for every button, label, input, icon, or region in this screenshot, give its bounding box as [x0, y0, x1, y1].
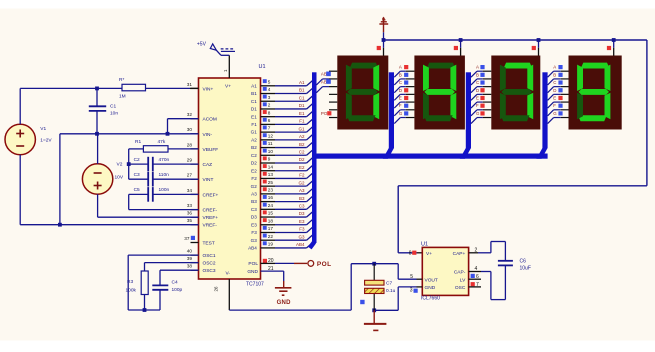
svg-text:A3: A3 — [299, 188, 305, 193]
svg-text:3: 3 — [268, 95, 271, 100]
svg-text:LV: LV — [460, 277, 466, 283]
svg-text:E3: E3 — [299, 219, 305, 224]
svg-text:C: C — [553, 80, 556, 85]
svg-text:2: 2 — [268, 103, 271, 108]
svg-text:31: 31 — [187, 82, 193, 87]
svg-text:7: 7 — [268, 126, 271, 131]
svg-text:B2: B2 — [251, 145, 257, 150]
svg-text:CAZ: CAZ — [203, 162, 213, 168]
svg-text:19: 19 — [268, 242, 274, 247]
svg-text:V+: V+ — [225, 84, 231, 90]
svg-text:0.1u: 0.1u — [386, 288, 396, 294]
svg-text:VIN+: VIN+ — [203, 86, 214, 92]
svg-text:A1: A1 — [251, 83, 257, 88]
svg-text:25: 25 — [268, 180, 274, 185]
svg-text:TC7107: TC7107 — [246, 282, 264, 288]
svg-text:E2: E2 — [299, 165, 305, 170]
svg-text:G3: G3 — [251, 238, 258, 243]
svg-text:470n: 470n — [159, 157, 170, 163]
svg-text:C2: C2 — [299, 149, 305, 154]
svg-text:TEST: TEST — [203, 241, 215, 247]
svg-text:R1: R1 — [135, 139, 141, 145]
svg-text:3: 3 — [410, 288, 413, 294]
svg-text:GND: GND — [277, 300, 292, 306]
svg-text:AB: AB — [321, 72, 327, 77]
svg-text:G2: G2 — [251, 184, 258, 189]
svg-text:E: E — [553, 95, 556, 100]
svg-text:15: 15 — [268, 211, 274, 216]
svg-text:A1: A1 — [299, 80, 305, 85]
svg-text:C6: C6 — [520, 259, 527, 265]
svg-text:C2: C2 — [134, 157, 140, 163]
svg-text:32: 32 — [187, 112, 193, 117]
svg-text:PO: PO — [321, 111, 328, 116]
svg-text:14: 14 — [268, 164, 274, 169]
svg-text:VOUT: VOUT — [425, 277, 438, 283]
svg-text:30: 30 — [187, 127, 193, 132]
svg-text:A3: A3 — [251, 191, 257, 196]
svg-text:16: 16 — [268, 195, 274, 200]
svg-text:28: 28 — [187, 142, 193, 147]
svg-text:G2: G2 — [298, 180, 305, 185]
svg-text:18: 18 — [268, 218, 274, 223]
svg-text:AB: AB — [321, 79, 327, 84]
svg-text:OSC3: OSC3 — [203, 268, 216, 274]
svg-text:10V: 10V — [115, 175, 124, 181]
svg-text:C4: C4 — [172, 280, 178, 286]
svg-text:D1: D1 — [251, 107, 257, 112]
svg-text:8: 8 — [268, 110, 271, 115]
svg-text:C5: C5 — [134, 187, 140, 193]
svg-text:1=2V: 1=2V — [40, 138, 52, 144]
svg-text:A2: A2 — [251, 137, 257, 142]
svg-text:8: 8 — [409, 250, 412, 256]
svg-text:10: 10 — [268, 149, 274, 154]
svg-text:AB4: AB4 — [296, 242, 305, 247]
svg-text:OSC2: OSC2 — [203, 261, 216, 267]
svg-text:U1: U1 — [421, 242, 428, 248]
svg-text:A2: A2 — [299, 134, 305, 139]
svg-text:B2: B2 — [299, 142, 305, 147]
svg-text:22: 22 — [268, 234, 274, 239]
svg-text:F2: F2 — [299, 173, 305, 178]
svg-text:12: 12 — [268, 133, 274, 138]
svg-text:VINT: VINT — [203, 177, 214, 183]
svg-text:100n: 100n — [159, 187, 170, 193]
svg-text:B3: B3 — [251, 199, 257, 204]
svg-text:D: D — [399, 88, 402, 93]
svg-text:F: F — [476, 103, 479, 108]
svg-text:34: 34 — [187, 188, 193, 193]
svg-text:17: 17 — [268, 226, 274, 231]
svg-text:C: C — [476, 80, 479, 85]
svg-text:100p: 100p — [172, 287, 183, 293]
svg-text:F: F — [399, 103, 402, 108]
svg-text:5: 5 — [268, 79, 271, 84]
svg-text:B: B — [399, 72, 402, 77]
svg-text:AB4: AB4 — [248, 246, 257, 251]
svg-text:33: 33 — [187, 203, 193, 208]
svg-text:23: 23 — [268, 187, 274, 192]
svg-text:VREF-: VREF- — [203, 223, 218, 229]
svg-text:B3: B3 — [299, 196, 305, 201]
svg-text:10uF: 10uF — [520, 265, 531, 271]
svg-text:D: D — [476, 88, 479, 93]
svg-text:B: B — [553, 72, 556, 77]
svg-text:+5V: +5V — [197, 42, 207, 48]
svg-text:U1: U1 — [259, 64, 266, 70]
svg-text:CAP+: CAP+ — [453, 251, 466, 257]
svg-text:35: 35 — [187, 218, 193, 223]
svg-text:47k: 47k — [158, 139, 166, 145]
svg-text:B1: B1 — [251, 91, 257, 96]
svg-text:G: G — [399, 111, 403, 116]
svg-text:27: 27 — [187, 173, 193, 178]
svg-text:D1: D1 — [299, 103, 305, 108]
svg-text:GND: GND — [425, 285, 436, 291]
svg-text:9: 9 — [268, 157, 271, 162]
svg-text:C3: C3 — [299, 204, 305, 209]
svg-text:E1: E1 — [251, 114, 257, 119]
svg-text:C1: C1 — [251, 99, 257, 104]
svg-text:V1: V1 — [40, 126, 46, 132]
svg-text:G1: G1 — [251, 130, 258, 135]
svg-text:D3: D3 — [299, 211, 305, 216]
svg-text:100k: 100k — [126, 288, 137, 294]
svg-text:D3: D3 — [251, 215, 257, 220]
svg-text:ICL7660: ICL7660 — [421, 296, 440, 302]
svg-text:D: D — [553, 88, 556, 93]
svg-text:C7: C7 — [386, 280, 392, 286]
svg-text:F2: F2 — [251, 176, 257, 181]
svg-text:10n: 10n — [110, 111, 118, 117]
svg-text:C1: C1 — [299, 95, 305, 100]
svg-text:G: G — [553, 111, 557, 116]
svg-text:V-: V- — [226, 271, 231, 277]
svg-text:B1: B1 — [299, 88, 305, 93]
svg-text:A: A — [476, 65, 479, 70]
svg-text:ACOM: ACOM — [203, 117, 217, 123]
svg-text:C3: C3 — [134, 172, 140, 178]
svg-text:VREF+: VREF+ — [203, 215, 219, 221]
svg-text:E2: E2 — [251, 168, 257, 173]
svg-text:CREF-: CREF- — [203, 208, 218, 214]
svg-text:1M: 1M — [119, 94, 126, 100]
svg-text:110n: 110n — [159, 172, 170, 178]
svg-text:CREF+: CREF+ — [203, 192, 219, 198]
svg-text:C2: C2 — [251, 153, 257, 158]
svg-text:V+: V+ — [426, 251, 432, 257]
svg-text:VBUFF: VBUFF — [203, 147, 219, 153]
svg-text:CAP-: CAP- — [454, 270, 466, 276]
svg-text:F3: F3 — [251, 230, 257, 235]
svg-text:POL: POL — [248, 261, 258, 267]
svg-text:E: E — [399, 95, 402, 100]
svg-text:C1: C1 — [110, 104, 116, 110]
svg-text:36: 36 — [187, 211, 193, 216]
svg-text:38: 38 — [187, 264, 193, 269]
svg-text:D2: D2 — [299, 157, 305, 162]
svg-text:E1: E1 — [299, 111, 305, 116]
svg-text:GND: GND — [247, 269, 258, 275]
svg-text:26: 26 — [214, 286, 219, 292]
svg-text:A: A — [399, 65, 402, 70]
svg-text:F1: F1 — [251, 122, 257, 127]
svg-text:G1: G1 — [298, 126, 305, 131]
svg-text:13: 13 — [268, 172, 274, 177]
svg-text:D2: D2 — [251, 161, 257, 166]
svg-text:B: B — [476, 72, 479, 77]
svg-text:40: 40 — [187, 249, 193, 254]
svg-text:F1: F1 — [299, 119, 305, 124]
svg-text:C3: C3 — [251, 207, 257, 212]
svg-text:A: A — [553, 65, 556, 70]
svg-text:C: C — [399, 80, 402, 85]
svg-text:E: E — [476, 95, 479, 100]
svg-text:R*: R* — [119, 77, 124, 83]
svg-text:24: 24 — [268, 203, 274, 208]
svg-text:4: 4 — [268, 87, 271, 92]
svg-text:F: F — [553, 103, 556, 108]
svg-text:OSC1: OSC1 — [203, 253, 216, 259]
svg-text:E3: E3 — [251, 222, 257, 227]
svg-text:11: 11 — [268, 141, 273, 146]
svg-text:G3: G3 — [298, 234, 305, 239]
svg-text:G: G — [476, 111, 480, 116]
svg-text:37: 37 — [184, 236, 190, 241]
svg-text:6: 6 — [268, 118, 271, 123]
svg-text:29: 29 — [187, 158, 193, 163]
svg-text:POL: POL — [317, 261, 332, 268]
svg-text:V2: V2 — [117, 162, 123, 168]
svg-text:F3: F3 — [299, 227, 305, 232]
svg-text:39: 39 — [187, 256, 193, 261]
svg-text:VIN-: VIN- — [203, 132, 213, 138]
svg-text:OSC: OSC — [455, 285, 466, 291]
svg-text:R3: R3 — [127, 279, 133, 285]
